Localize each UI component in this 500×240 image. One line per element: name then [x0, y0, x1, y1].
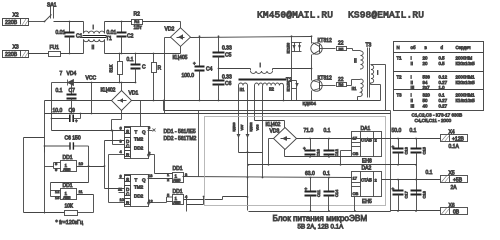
svg-text:II1: II1 — [352, 86, 357, 91]
svg-text:2000НМ1: 2000НМ1 — [456, 75, 476, 80]
svg-text:II: II — [411, 61, 413, 66]
svg-text:20: 20 — [423, 56, 428, 61]
svg-text:N: N — [397, 45, 400, 50]
svg-text:С6 150: С6 150 — [65, 136, 81, 142]
svg-text:11: 11 — [118, 187, 123, 192]
table top right — [394, 42, 484, 111]
svg-text:Х2: Х2 — [13, 13, 19, 19]
svg-text:VD1: VD1 — [129, 91, 139, 97]
resistor R3 x=153 — [152, 53, 162, 102]
DD2.1 wiring — [112, 131, 114, 145]
svg-text:ТМ2: ТМ2 — [134, 185, 144, 190]
svg-text:VD7: VD7 — [240, 124, 244, 130]
svg-text:Т1: Т1 — [397, 56, 403, 61]
svg-text:С: С — [142, 65, 146, 71]
gnd wire y=156.4 — [285, 156, 352, 158]
common rail to X6 — [391, 210, 441, 212]
diode VD7 on lead 238 — [237, 134, 240, 137]
svg-text:5В 2А, 12В 0.1А: 5В 2А, 12В 0.1А — [298, 224, 345, 231]
transistor VT2 KT812 — [311, 55, 336, 92]
svg-text:КД522: КД522 — [249, 122, 253, 131]
fuse FU1 — [29, 45, 84, 57]
zener diodes VD5 VD6 — [287, 35, 302, 100]
svg-text:С5: С5 — [225, 53, 232, 59]
svg-text:40: 40 — [423, 104, 428, 109]
svg-text:4: 4 — [120, 149, 123, 154]
svg-text:7: 7 — [60, 71, 63, 77]
capacitor C2 0.01 — [107, 21, 134, 55]
svg-text:С4,С5,С11 - 2000: С4,С5,С11 - 2000 — [415, 118, 452, 123]
bus y=114 — [45, 113, 391, 115]
wire X2 to switch — [29, 21, 45, 23]
svg-text:I: I — [260, 63, 261, 69]
caps 50.0 / 0.1 after DA1 — [392, 128, 427, 211]
svg-text:С2: С2 — [127, 34, 134, 40]
svg-text:+5В: +5В — [453, 178, 463, 184]
connector X3 — [3, 45, 29, 59]
svg-text:2: 2 — [167, 177, 170, 182]
svg-text:DD1 - 561ЛЕ5: DD1 - 561ЛЕ5 — [164, 129, 196, 135]
svg-text:DA2: DA2 — [362, 166, 372, 172]
svg-text:VD8: VD8 — [256, 124, 260, 130]
svg-text:С1,С2,С3 - К73-17 630В: С1,С2,С3 - К73-17 630В — [412, 113, 463, 118]
svg-text:0.5: 0.5 — [439, 56, 446, 61]
svg-text:II: II — [411, 98, 413, 103]
left rail x=44 — [44, 101, 46, 114]
svg-text:III: III — [411, 104, 415, 109]
svg-text:Т2: Т2 — [397, 75, 403, 80]
gate DD1.3 — [167, 166, 188, 183]
minus bus y=100 — [45, 100, 112, 102]
zener diode VD9 — [287, 81, 299, 101]
svg-text:Сердеч: Сердеч — [456, 45, 471, 50]
svg-text:Т3: Т3 — [397, 93, 403, 98]
svg-text:10: 10 — [120, 197, 125, 202]
svg-text:220В: 220В — [5, 52, 18, 58]
svg-text:0.01: 0.01 — [107, 30, 117, 36]
svg-text:SA1: SA1 — [47, 3, 57, 9]
svg-text:R2: R2 — [134, 19, 140, 24]
svg-text:КЦ402: КЦ402 — [101, 88, 116, 94]
transformer T3 drive — [352, 43, 386, 111]
svg-text:Q: Q — [142, 178, 146, 183]
svg-text:ЕН5: ЕН5 — [362, 199, 372, 205]
svg-text:ЛЕ5: ЛЕ5 — [173, 178, 181, 183]
svg-text:* fг=120кГц: * fг=120кГц — [56, 220, 84, 226]
gate DD1.4 — [167, 189, 248, 205]
svg-text:0.33: 0.33 — [222, 46, 232, 52]
svg-text:КТ812: КТ812 — [318, 38, 333, 44]
svg-text:об: об — [411, 45, 416, 50]
svg-text:С18: С18 — [422, 190, 427, 198]
svg-text:С11: С11 — [316, 189, 321, 197]
svg-text:С9: С9 — [69, 108, 76, 114]
svg-text:KM450@MAIL.RU: KM450@MAIL.RU — [257, 10, 333, 21]
regulator DA1 — [340, 126, 382, 166]
svg-text:1Вт: 1Вт — [134, 25, 143, 31]
svg-text:ОВ: ОВ — [353, 191, 359, 196]
svg-text:Q: Q — [142, 130, 146, 135]
svg-text:ОВ: ОВ — [353, 151, 359, 156]
svg-text:20: 20 — [423, 61, 428, 66]
oscillator left rail — [23, 138, 25, 213]
output rectifier VD3 KC402 — [255, 121, 441, 165]
cap 51.0 C10 — [303, 128, 321, 158]
svg-text:ЛЕ5: ЛЕ5 — [173, 200, 181, 205]
svg-text:51К: 51К — [109, 64, 114, 72]
svg-text:13: 13 — [148, 173, 153, 178]
DD2.2 Qbar to gate DD1.4 — [161, 202, 167, 204]
svg-text:R5: R5 — [339, 48, 344, 52]
svg-text:КЦ405: КЦ405 — [173, 55, 188, 61]
transformer T2 main — [219, 63, 312, 92]
diode VD8 on lead 247 — [246, 134, 249, 137]
DD2.1 Qbar to gate DD1.3 — [154, 155, 156, 174]
resistor R4 10k — [45, 195, 94, 216]
gate DD1.1 — [54, 155, 105, 172]
svg-text:КД504: КД504 — [303, 101, 317, 106]
svg-text:100.0: 100.0 — [182, 73, 195, 79]
connector X2 — [3, 13, 29, 27]
svg-text:КД510: КД510 — [232, 122, 236, 131]
svg-text:С10: С10 — [316, 148, 321, 156]
svg-text:11: 11 — [79, 189, 84, 194]
svg-text:СТАБ: СТАБ — [361, 138, 372, 143]
svg-text:VD3: VD3 — [270, 129, 280, 135]
svg-text:R6: R6 — [339, 83, 344, 87]
svg-text:КЦ402: КЦ402 — [266, 122, 281, 128]
flip-flop DD2.1 — [120, 125, 156, 159]
svg-text:Блок питания микроЭВМ: Блок питания микроЭВМ — [273, 214, 368, 223]
svg-text:R: R — [158, 66, 162, 72]
svg-text:Х3: Х3 — [13, 45, 19, 51]
wire y=151.5 joining leads — [239, 152, 263, 154]
svg-text:0.12: 0.12 — [439, 75, 448, 80]
svg-text:63.0: 63.0 — [305, 171, 315, 177]
T2 secondary leads — [238, 86, 240, 153]
regulator DA2 — [352, 166, 441, 212]
svg-text:I: I — [411, 93, 412, 98]
svg-text:KS98@EMAIL.RU: KS98@EMAIL.RU — [348, 10, 424, 21]
svg-text:50.0: 50.0 — [392, 128, 402, 134]
cap 0.1 C12 — [324, 128, 340, 158]
bridge rectifier VD2 KC405 — [165, 22, 312, 62]
svg-text:II: II — [354, 59, 357, 65]
wire minus rail drop x=164 — [164, 38, 166, 114]
svg-text:2000НМ1: 2000НМ1 — [456, 93, 476, 98]
svg-text:0.1: 0.1 — [324, 128, 331, 134]
caps 50.0 / 0.1 after DA2 — [392, 170, 433, 212]
svg-text:9: 9 — [148, 125, 151, 130]
svg-text:0.5: 0.5 — [439, 61, 446, 66]
svg-text:К20х10х5: К20х10х5 — [456, 61, 476, 66]
clock riser — [104, 141, 106, 189]
svg-text:С6: С6 — [225, 81, 232, 87]
svg-text:DD2: DD2 — [134, 146, 144, 151]
svg-text:III: III — [411, 85, 415, 90]
svg-text:17: 17 — [353, 176, 358, 181]
switch SA1 — [44, 3, 84, 23]
svg-text:0.1: 0.1 — [127, 57, 134, 63]
svg-text:8: 8 — [120, 173, 123, 178]
svg-text:в: в — [425, 45, 428, 50]
svg-text:2000НМ: 2000НМ — [456, 56, 473, 61]
capacitor C6 0.33 — [213, 68, 232, 102]
resistor R5 22 — [337, 41, 361, 52]
svg-text:СТАБ: СТАБ — [361, 178, 372, 183]
svg-text:DD2 - 561ТМ2: DD2 - 561ТМ2 — [164, 136, 197, 142]
svg-text:1.0: 1.0 — [439, 85, 446, 90]
svg-text:ЛЕ5: ЛЕ5 — [63, 195, 71, 200]
svg-text:I: I — [93, 25, 94, 31]
VT2 emitter down — [311, 91, 313, 101]
svg-text:С12: С12 — [334, 148, 339, 156]
svg-text:10: 10 — [79, 161, 84, 166]
svg-text:С17: С17 — [404, 190, 409, 198]
svg-text:Т: Т — [135, 130, 138, 135]
svg-text:К20х10х5: К20х10х5 — [456, 80, 476, 85]
capacitor C6 150 — [44, 136, 89, 150]
capacitor C4 100.0 electrolytic — [182, 35, 213, 101]
resistor R2 1k — [132, 12, 181, 32]
svg-text:I: I — [411, 56, 412, 61]
svg-text:FU1: FU1 — [50, 45, 60, 51]
svg-text:VD4: VD4 — [67, 71, 77, 77]
svg-text:S: S — [126, 129, 129, 134]
svg-text:С1: С1 — [76, 34, 83, 40]
bus y=109.5 — [164, 110, 391, 112]
svg-text:0.1: 0.1 — [56, 88, 63, 94]
svg-text:+: + — [193, 61, 196, 66]
svg-text:12: 12 — [55, 189, 60, 194]
svg-text:VD2: VD2 — [165, 27, 175, 33]
zener VD4 and VCC — [52, 71, 136, 114]
svg-text:536: 536 — [423, 75, 431, 80]
svg-text:ТМ2: ТМ2 — [134, 137, 144, 142]
capacitor 0.1 x=135 — [127, 53, 147, 84]
transistor VT1 KT812 — [311, 35, 336, 54]
svg-text:0.1: 0.1 — [323, 171, 330, 177]
svg-text:S: S — [126, 177, 129, 182]
svg-text:3: 3 — [120, 139, 123, 144]
capacitor C5 0.33 — [213, 35, 232, 68]
svg-text:I: I — [377, 71, 378, 77]
svg-text:ЛЕ5: ЛЕ5 — [63, 167, 71, 172]
svg-text:Т: Т — [135, 178, 138, 183]
svg-text:220В: 220В — [5, 20, 18, 26]
svg-text:0.1: 0.1 — [426, 170, 433, 176]
svg-text:ЕН8: ЕН8 — [362, 159, 372, 165]
svg-text:22: 22 — [338, 41, 344, 47]
capacitor C9 10.0 — [51, 108, 82, 124]
svg-text:VCC: VCC — [86, 76, 97, 82]
svg-text:10.0: 10.0 — [53, 108, 63, 114]
svg-text:8: 8 — [55, 161, 58, 166]
resistor R6 22 — [337, 77, 361, 87]
svg-text:71.0: 71.0 — [304, 128, 314, 134]
svg-text:Т1: Т1 — [106, 36, 112, 42]
svg-text:13: 13 — [55, 195, 60, 200]
capacitor C1 0.01 — [56, 21, 83, 55]
svg-text:d: d — [441, 45, 444, 50]
wire bottom AC after T1 — [105, 53, 181, 55]
svg-text:0.1: 0.1 — [410, 128, 417, 134]
svg-text:0.1: 0.1 — [439, 93, 446, 98]
resistor R1 51k vertical — [109, 53, 123, 84]
transformer T1 — [83, 22, 113, 54]
connector X5 +5V — [441, 171, 468, 192]
bridge rectifier VD1 KC402 — [101, 82, 141, 132]
svg-text:КС156: КС156 — [287, 81, 291, 92]
svg-text:R2: R2 — [134, 12, 141, 18]
wire y=164.3 — [249, 164, 417, 166]
svg-text:К16х10х5: К16х10х5 — [456, 98, 476, 103]
svg-text:+12В: +12В — [452, 137, 464, 143]
svg-text:17: 17 — [353, 136, 358, 141]
svg-text:0.27: 0.27 — [439, 98, 448, 103]
svg-text:2х7: 2х7 — [423, 85, 431, 90]
svg-text:С4: С4 — [206, 67, 213, 73]
svg-text:С15: С15 — [422, 146, 427, 154]
svg-text:2: 2 — [375, 178, 378, 183]
svg-text:6: 6 — [120, 125, 123, 130]
svg-text:КС156: КС156 — [287, 43, 291, 54]
svg-text:DD1: DD1 — [173, 166, 183, 172]
svg-text:0В: 0В — [453, 210, 460, 216]
caps 63.0 / 0.1 before DA2 — [305, 171, 340, 212]
svg-text:II2: II2 — [269, 87, 274, 92]
capacitor C7 0.1 — [56, 82, 77, 115]
svg-text:320: 320 — [423, 93, 431, 98]
left rail x=51 — [51, 83, 53, 131]
connector X4 +12V — [441, 130, 468, 151]
svg-text:II: II — [92, 45, 95, 51]
svg-text:I: I — [411, 75, 412, 80]
big box secondary side — [199, 110, 391, 112]
wire top AC after T1 — [105, 21, 132, 23]
svg-text:0.1А: 0.1А — [449, 144, 460, 150]
wire y=130 to DD2.1 S — [52, 130, 125, 132]
svg-text:Т3: Т3 — [366, 43, 372, 49]
svg-text:+: + — [75, 119, 78, 124]
flip-flop DD2.2 — [118, 173, 173, 207]
svg-text:0.27: 0.27 — [439, 104, 448, 109]
svg-text:II1: II1 — [240, 87, 245, 92]
gate DD1.2 — [51, 183, 94, 200]
svg-text:0.01: 0.01 — [56, 30, 66, 36]
svg-text:50: 50 — [423, 98, 428, 103]
osc wiring — [53, 163, 55, 169]
svg-text:10К: 10К — [65, 204, 74, 210]
svg-text:9: 9 — [55, 167, 58, 172]
svg-text:DD2: DD2 — [134, 194, 144, 199]
svg-text:С13: С13 — [404, 146, 409, 154]
svg-text:2А: 2А — [451, 185, 458, 191]
connector X6 0V — [441, 203, 468, 216]
gate3 output wire to rail y=177 — [183, 177, 352, 178]
svg-text:С14: С14 — [334, 189, 339, 197]
